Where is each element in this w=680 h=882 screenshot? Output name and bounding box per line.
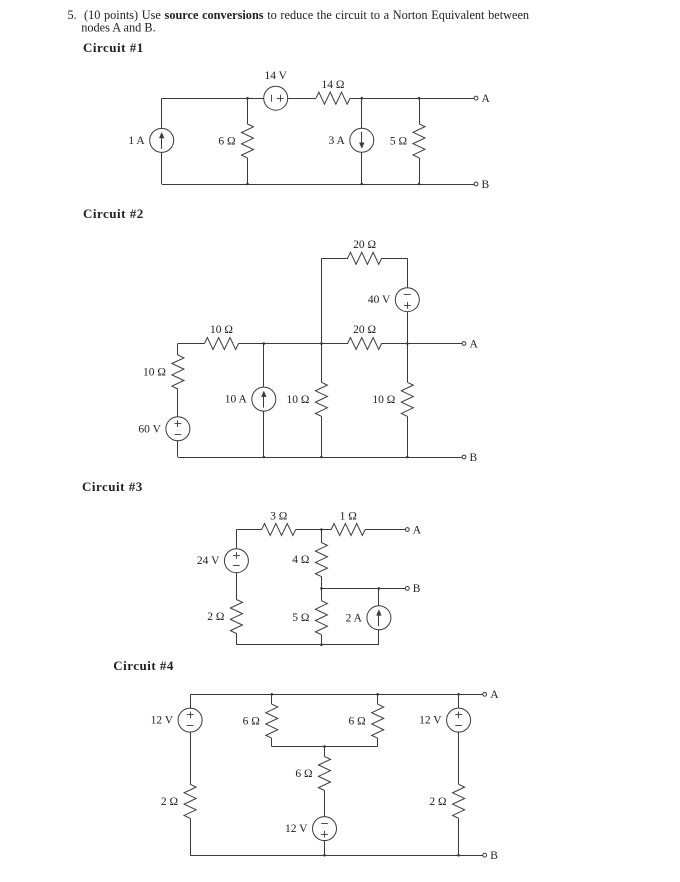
wire C3 bottom xyxy=(236,644,379,646)
resistor 10 ohm horizontal xyxy=(205,338,239,350)
wire C1 5-ohm branch bottom xyxy=(419,158,421,184)
wire C4 right branch bottom xyxy=(458,818,460,855)
svg-text:3 A: 3 A xyxy=(329,135,346,147)
svg-text:12 V: 12 V xyxy=(151,715,174,727)
wire C4 branch3 bottom xyxy=(377,738,379,746)
svg-text:60 V: 60 V xyxy=(138,423,161,435)
svg-text:2 Ω: 2 Ω xyxy=(207,611,224,623)
svg-text:6 Ω: 6 Ω xyxy=(349,716,366,728)
wire C3 top to terminal A xyxy=(365,529,407,531)
current source 10 A xyxy=(252,387,276,411)
svg-text:B: B xyxy=(490,850,498,862)
junction dots C3 xyxy=(320,528,323,531)
wire C2 right branch lower xyxy=(407,416,409,457)
svg-text:Circuit #1: Circuit #1 xyxy=(83,40,144,55)
wire C3 left branch top xyxy=(236,530,238,550)
svg-text:5 Ω: 5 Ω xyxy=(292,612,309,624)
wire C1 resistor to terminal A xyxy=(350,98,476,100)
wire C4 left branch mid xyxy=(190,732,192,785)
terminal A C1 xyxy=(474,96,478,100)
wire C2 40V to A-row xyxy=(407,311,409,343)
svg-text:24 V: 24 V xyxy=(197,555,220,567)
svg-text:4 Ω: 4 Ω xyxy=(292,554,309,566)
svg-text:A: A xyxy=(470,338,479,350)
wire C4 branch3 top xyxy=(377,694,379,704)
svg-text:20 Ω: 20 Ω xyxy=(353,239,376,251)
resistor 6 ohm branch2 xyxy=(266,704,278,738)
terminal B C2 xyxy=(462,455,466,459)
voltage source 12 V middle xyxy=(313,817,337,841)
wire C3 middle branch top xyxy=(321,530,323,543)
wire C1 3A branch bottom xyxy=(361,152,363,184)
wire C2 top loop left xyxy=(321,258,348,260)
wire C1 6-ohm branch bottom xyxy=(247,158,249,184)
svg-text:10 Ω: 10 Ω xyxy=(143,367,166,379)
svg-text:40 V: 40 V xyxy=(368,294,391,306)
wire C1 source to resistor xyxy=(287,98,316,100)
terminal B C4 xyxy=(483,853,487,857)
wire C3 top-left xyxy=(236,529,261,531)
current source 3 A xyxy=(350,128,374,152)
wire C2 left branch middle xyxy=(177,389,179,417)
wire C2 A-row middle xyxy=(239,343,349,345)
svg-text:6 Ω: 6 Ω xyxy=(218,136,235,148)
wire C2 left branch lower xyxy=(177,441,179,458)
wire C2 middle branch lower xyxy=(321,416,323,457)
svg-text:nodes A and B.: nodes A and B. xyxy=(81,21,155,35)
svg-text:6 Ω: 6 Ω xyxy=(243,716,260,728)
junction dots C4 xyxy=(271,693,274,696)
svg-text:Circuit #3: Circuit #3 xyxy=(82,479,143,494)
wire C2 A-row to terminal xyxy=(381,343,464,345)
svg-text:1 A: 1 A xyxy=(128,135,145,147)
wire C2 left branch upper xyxy=(177,344,179,356)
svg-text:10 Ω: 10 Ω xyxy=(286,394,309,406)
wire C4 left branch top xyxy=(190,694,192,708)
wire C1 bottom xyxy=(162,184,476,186)
junction dots C2 xyxy=(263,342,266,345)
svg-text:Circuit #4: Circuit #4 xyxy=(113,658,174,673)
svg-text:A: A xyxy=(490,689,499,701)
wire C2 10A branch bottom xyxy=(263,411,265,457)
current source 2 A xyxy=(367,606,391,630)
junction dots C1 xyxy=(246,97,249,100)
resistor 10 ohm left xyxy=(172,355,184,389)
wire C4 branch2 bottom xyxy=(271,738,273,746)
wire C3 middle branch bottom xyxy=(321,635,323,645)
voltage source 24 V xyxy=(224,549,248,573)
wire C4 left branch bottom xyxy=(190,818,192,855)
svg-text:20 Ω: 20 Ω xyxy=(353,324,376,336)
resistor 20 ohm top xyxy=(348,252,382,264)
wire C3 2A branch bottom xyxy=(378,630,380,645)
svg-text:10 Ω: 10 Ω xyxy=(372,394,395,406)
resistor 3 ohm xyxy=(262,524,296,536)
resistor 6 ohm middle xyxy=(319,757,331,791)
wire C2 right branch upper xyxy=(407,344,409,383)
resistor 14 ohm xyxy=(316,92,350,104)
wire C2 10A branch top xyxy=(263,344,265,388)
resistor 10 ohm middle xyxy=(315,382,327,416)
terminal A C4 xyxy=(483,692,487,696)
wire C2 bottom xyxy=(178,457,464,459)
svg-text:14 Ω: 14 Ω xyxy=(322,79,345,91)
wire C4 bottom xyxy=(190,855,485,857)
wire C4 branch2 top xyxy=(271,694,273,704)
wire C2 top loop left vertical xyxy=(321,258,323,343)
svg-text:Circuit #2: Circuit #2 xyxy=(83,206,144,221)
terminal B C1 xyxy=(474,182,478,186)
svg-text:12 V: 12 V xyxy=(285,823,308,835)
svg-text:B: B xyxy=(482,179,490,191)
resistor 5 ohm xyxy=(315,601,327,635)
resistor 10 ohm right xyxy=(401,382,413,416)
wire C2 top loop right vertical xyxy=(407,258,409,288)
wire C1 left branch xyxy=(161,98,163,129)
resistor 1 ohm xyxy=(331,524,365,536)
voltage source 12 V right xyxy=(447,708,471,732)
wire C4 middle branch bottom xyxy=(324,840,326,855)
wire C3 left branch middle xyxy=(236,572,238,599)
svg-text:3 Ω: 3 Ω xyxy=(270,510,287,522)
wire C4 middle branch top xyxy=(324,747,326,757)
wire C1 top-left xyxy=(162,98,264,100)
wire C2 middle branch upper xyxy=(321,344,323,383)
resistor 2 ohm right xyxy=(453,784,465,818)
svg-text:6 Ω: 6 Ω xyxy=(295,768,312,780)
voltage source 40 V xyxy=(395,288,419,312)
svg-text:2 Ω: 2 Ω xyxy=(161,796,178,808)
svg-text:2 A: 2 A xyxy=(346,612,363,624)
terminal B C3 xyxy=(405,587,409,591)
wire C4 join xyxy=(272,746,378,748)
svg-text:A: A xyxy=(413,524,422,536)
wire C3 left branch bottom xyxy=(236,634,238,645)
svg-text:10 A: 10 A xyxy=(225,394,248,406)
wire C1 5-ohm branch top xyxy=(419,98,421,124)
resistor 4 ohm xyxy=(315,543,327,577)
wire C2 A-row left xyxy=(178,343,205,345)
terminal A C2 xyxy=(462,342,466,346)
svg-text:1 Ω: 1 Ω xyxy=(340,510,357,522)
svg-text:2 Ω: 2 Ω xyxy=(429,796,446,808)
wire C1 6-ohm branch top xyxy=(247,98,249,124)
svg-text:12 V: 12 V xyxy=(419,715,442,727)
svg-text:5 Ω: 5 Ω xyxy=(390,135,407,147)
svg-text:10 Ω: 10 Ω xyxy=(210,324,233,336)
voltage source 12 V left xyxy=(178,708,202,732)
wire C3 top middle xyxy=(296,529,332,531)
wire C4 right branch top xyxy=(458,694,460,708)
wire C3 2A branch top xyxy=(378,588,380,606)
voltage source 60 V xyxy=(166,417,190,441)
wire C1 3A branch top xyxy=(361,98,363,128)
resistor 2 ohm left xyxy=(184,784,196,818)
wire C3 middle branch mid xyxy=(321,577,323,601)
svg-text:B: B xyxy=(470,452,478,464)
resistor 5 ohm xyxy=(413,124,425,158)
voltage source 14 V xyxy=(264,86,288,110)
wire C3 B-row xyxy=(321,588,407,590)
current source 1 A xyxy=(150,128,174,152)
resistor 6 ohm xyxy=(242,124,254,158)
resistor 20 ohm A-row xyxy=(348,338,382,350)
wire C2 top loop right xyxy=(381,258,407,260)
wire C4 middle branch mid xyxy=(324,791,326,817)
resistor 2 ohm xyxy=(230,600,242,634)
svg-text:B: B xyxy=(413,583,421,595)
svg-text:A: A xyxy=(482,93,491,105)
svg-text:14 V: 14 V xyxy=(264,70,287,82)
resistor 6 ohm branch3 xyxy=(372,704,384,738)
terminal A C3 xyxy=(405,528,409,532)
wire C4 right branch mid xyxy=(458,732,460,785)
wire C4 top xyxy=(190,694,485,696)
